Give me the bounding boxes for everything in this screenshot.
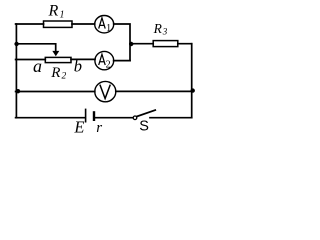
- junction dot node right/V: [191, 88, 195, 92]
- ammeter A1: [95, 16, 114, 33]
- svg-text:E: E: [73, 117, 84, 136]
- wire R2 branch left: [16, 59, 46, 61]
- svg-text:S: S: [139, 119, 149, 135]
- voltmeter V: [95, 81, 116, 101]
- label V: [100, 85, 110, 99]
- resistor R3: [153, 41, 178, 47]
- wire switch to right: [150, 117, 192, 119]
- label A1: [99, 18, 106, 29]
- wire wiper: [16, 44, 56, 51]
- svg-text:2: 2: [62, 72, 67, 82]
- svg-text:1: 1: [60, 10, 65, 21]
- wire bottom left to battery: [16, 117, 85, 119]
- battery long plate: [85, 109, 87, 121]
- wire right vertical: [191, 44, 193, 118]
- junction dot node bus/R3: [129, 42, 133, 46]
- wire left vertical: [15, 24, 17, 118]
- svg-text:r: r: [96, 120, 102, 136]
- wire R2 to A2: [71, 58, 95, 60]
- wire top branch left: [16, 23, 44, 25]
- svg-text:R: R: [48, 3, 59, 20]
- wire voltmeter branch right: [116, 90, 192, 92]
- switch S blade: [137, 110, 155, 116]
- battery short plate: [93, 112, 95, 119]
- svg-text:3: 3: [162, 27, 168, 37]
- junction dot node left/wiper: [14, 42, 18, 46]
- wire R3 branch: [130, 43, 153, 45]
- junction dot node left/V: [16, 89, 20, 93]
- svg-text:b: b: [74, 56, 82, 75]
- svg-text:a: a: [33, 56, 42, 76]
- svg-text:2: 2: [106, 60, 111, 71]
- rheostat R2: [45, 57, 71, 62]
- wire battery to switch: [95, 117, 133, 119]
- ammeter A2: [95, 51, 114, 69]
- wire R3 to right: [178, 43, 192, 45]
- wire R1 to A1: [72, 23, 95, 25]
- wire A1 to bus: [114, 24, 130, 61]
- svg-text:R: R: [50, 65, 60, 81]
- wire A2 to bus: [114, 60, 130, 62]
- resistor R1: [44, 21, 73, 27]
- svg-text:R: R: [153, 21, 163, 36]
- wire voltmeter branch left: [16, 91, 95, 93]
- switch S pivot: [133, 116, 137, 120]
- arrowhead of wiper: [52, 51, 59, 56]
- label A2: [99, 54, 106, 65]
- svg-text:1: 1: [106, 23, 111, 34]
